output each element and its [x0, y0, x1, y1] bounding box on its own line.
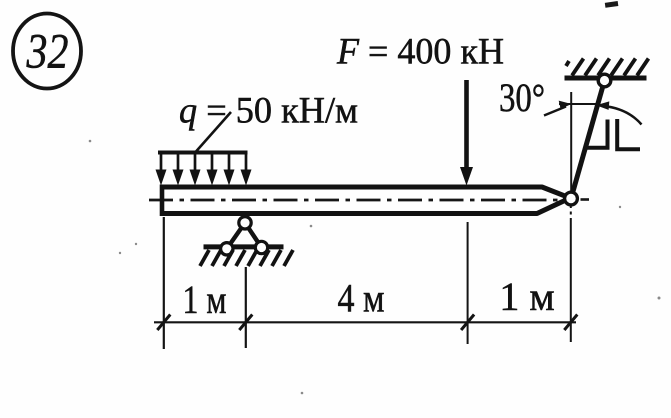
section mark (mirrored L bracket): [587, 120, 608, 148]
svg-text:1 м: 1 м: [499, 274, 554, 319]
svg-text:30°: 30°: [499, 75, 545, 120]
pin support top hinge circle: [239, 217, 251, 229]
beam axis centerline (dash-dot): [149, 199, 561, 202]
svg-text:q = 50 кН/м: q = 50 кН/м: [179, 91, 358, 132]
angle arrow right with arc tail: [608, 107, 642, 125]
dimension slash tick 4: [564, 315, 577, 331]
centerline dash right of hinge: [581, 198, 590, 201]
dimension slash tick 1: [157, 315, 170, 331]
vertical reference line for angle: [570, 92, 572, 191]
inclined rod (link): [571, 81, 605, 199]
beam top chord: [162, 187, 565, 196]
beam left end cap: [160, 185, 165, 217]
pin support right roller circle: [255, 241, 267, 253]
left extension line: [163, 217, 165, 349]
pin support ground hatching: [200, 250, 293, 266]
dimension slash tick 3: [461, 315, 474, 331]
pin support legs: [227, 223, 245, 249]
svg-text:4 м: 4 м: [338, 276, 385, 321]
force extension line: [467, 222, 469, 344]
beam bottom chord: [162, 201, 565, 214]
scan artifact specks: [89, 140, 661, 395]
distributed load q top bar: [158, 151, 248, 155]
ceiling hatching: [566, 59, 649, 76]
right extension line (dotted near hinge): [570, 205, 572, 221]
leader line from q label to load bar: [196, 112, 231, 152]
pin support ground line: [204, 244, 284, 249]
dimension line: [154, 321, 576, 323]
distributed load arrows: [156, 154, 251, 184]
horizontal tick at angle dimension: [559, 103, 596, 105]
section mark (L bracket): [617, 119, 640, 149]
pin support left roller circle: [221, 243, 233, 255]
svg-text:F = 400 кН: F = 400 кН: [336, 32, 504, 73]
scan artifact: top edge mark: [605, 1, 619, 8]
svg-text:32: 32: [26, 23, 69, 79]
ceiling line of upper wall: [565, 76, 647, 81]
top hinge of rod: [598, 74, 611, 87]
support extension line: [245, 267, 247, 348]
angle arrow left: [544, 107, 566, 116]
beam end hinge: [565, 192, 578, 205]
svg-text:1 м: 1 м: [183, 277, 227, 322]
force F arrow: [464, 80, 469, 170]
dimension slash tick 2: [239, 315, 252, 331]
problem number badge circle: [13, 14, 81, 89]
